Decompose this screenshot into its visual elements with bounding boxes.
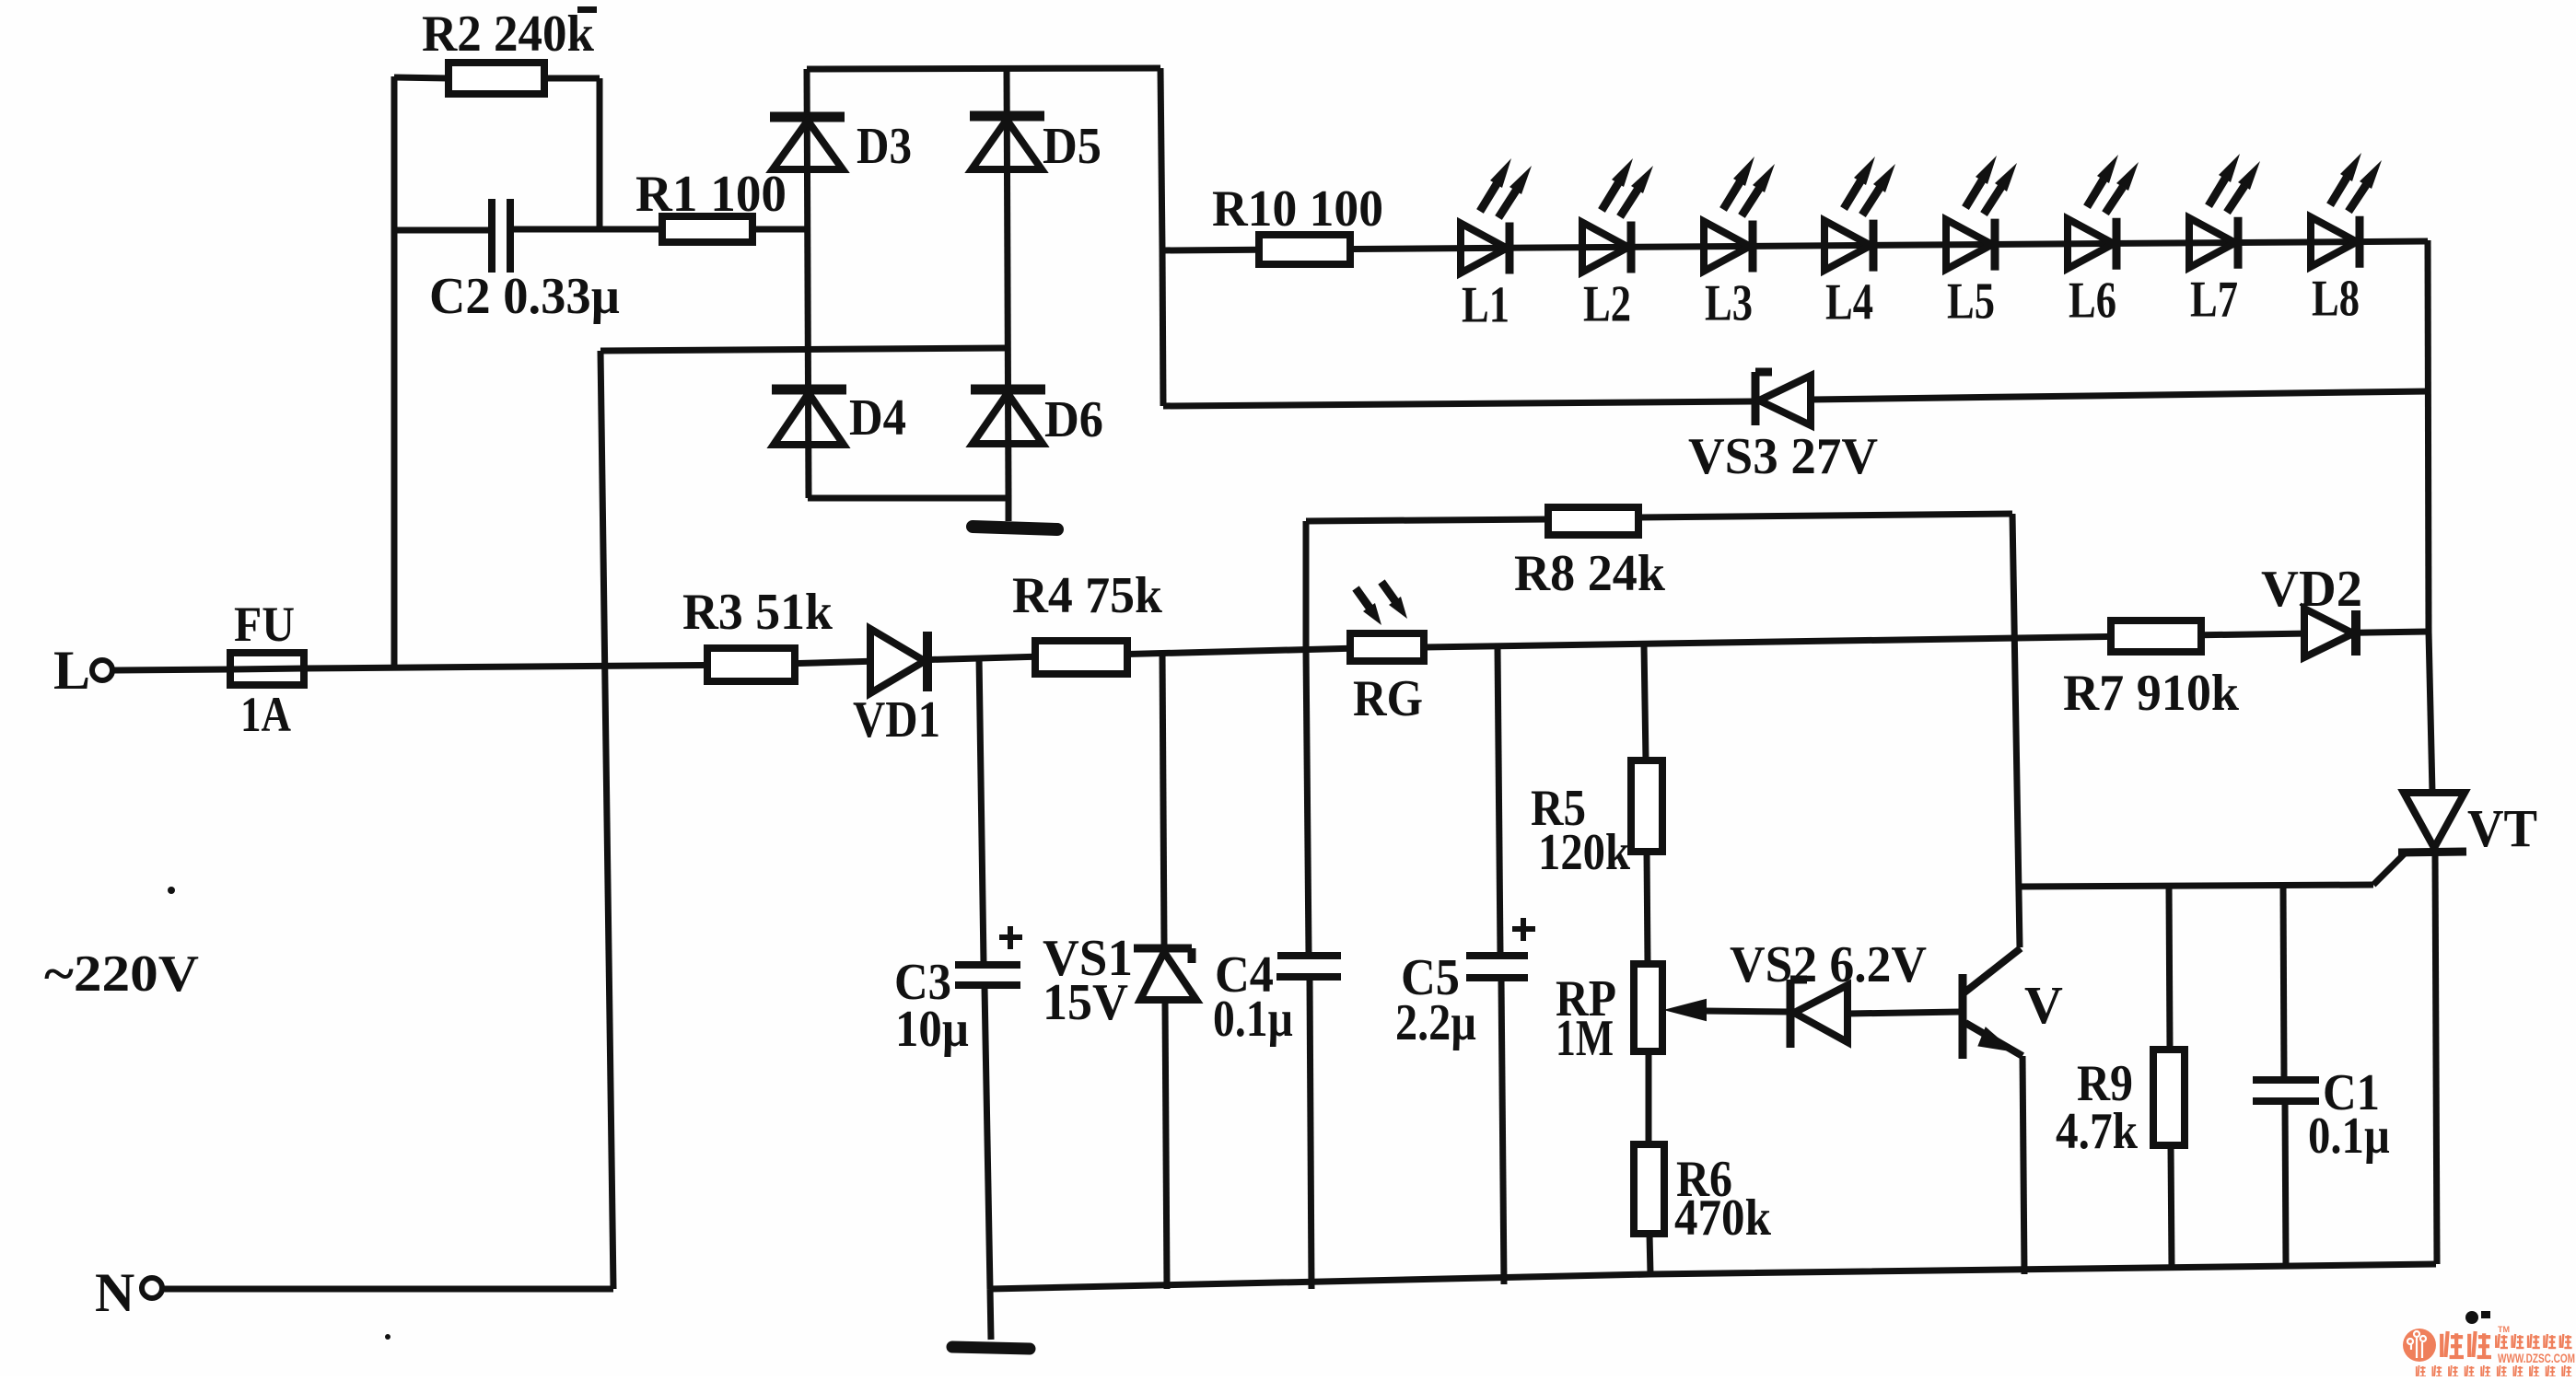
wire VS1 branch top [1162, 653, 1164, 945]
diode D3 [770, 112, 845, 122]
wire C4 branch bottom [1310, 979, 1311, 1289]
LED L3 [1704, 222, 1750, 272]
resistor R2 240k [449, 63, 544, 94]
svg-text:VD1: VD1 [853, 691, 940, 749]
wire LED feed drop [1162, 250, 1163, 406]
wire bottom rail [990, 1264, 2436, 1289]
wire R1 to bridge [752, 226, 807, 233]
wire N rail [162, 1286, 613, 1293]
LED L8 [2311, 217, 2357, 267]
resistor R7 910k [2111, 621, 2201, 652]
resistor R1 100 [662, 216, 752, 242]
zener VS1 15V [1134, 945, 1192, 953]
svg-text:WWW.DZSC.COM: WWW.DZSC.COM [2498, 1351, 2575, 1365]
svg-text:R7 910k: R7 910k [2063, 665, 2240, 722]
watermark weiku logo [2403, 1329, 2436, 1362]
capacitor C1 0.1u [2253, 1076, 2319, 1084]
LED L2 [1582, 223, 1628, 273]
svg-text:15V: 15V [1043, 974, 1128, 1031]
wire D6 to ground [1006, 498, 1012, 521]
wire C3 branch bottom [985, 987, 990, 1289]
wire L terminal to main rail [112, 669, 230, 670]
svg-text:VS2 6.2V: VS2 6.2V [1730, 936, 1927, 993]
wire C1 branch bottom [2285, 1103, 2286, 1265]
diode D5 [970, 111, 1044, 122]
svg-text:N: N [95, 1262, 134, 1323]
svg-text:~220V: ~220V [44, 946, 199, 1003]
diode D6 [971, 385, 1045, 395]
svg-text:VT: VT [2467, 798, 2537, 858]
capacitor C4 0.1u [1277, 952, 1341, 959]
transistor V collector [1964, 948, 2021, 992]
wire R2 right drop to C2 node [597, 78, 603, 229]
svg-text:1A: 1A [240, 687, 291, 742]
resistor R3 51k [707, 648, 795, 681]
wire R3 to VD1 [795, 661, 870, 663]
ground main [990, 1289, 991, 1340]
ground bridge [973, 527, 1057, 529]
wire C3 branch top [979, 656, 984, 963]
wire R7 to VD2 [2201, 633, 2304, 635]
LED L7 [2189, 218, 2235, 268]
svg-text:1M: 1M [1556, 1010, 1614, 1067]
transistor V base bar [1959, 974, 1967, 1059]
svg-text:VS3 27V: VS3 27V [1688, 428, 1878, 485]
resistor R10 100 [1259, 235, 1350, 264]
wire RG to R7 [1424, 636, 2111, 647]
wire R2 top left [394, 77, 449, 78]
capacitor C5 2.2u [1466, 952, 1528, 959]
svg-text:RG: RG [1353, 670, 1423, 727]
wire C5 branch bottom [1501, 980, 1504, 1284]
scan speck [577, 6, 597, 13]
svg-text:L2: L2 [1583, 276, 1631, 333]
svg-text:L5: L5 [1947, 273, 1995, 331]
scan speck [168, 887, 175, 894]
wire VS2 to base [1847, 1012, 1960, 1014]
potentiometer RP 1M [1634, 964, 1662, 1051]
svg-text:VD2: VD2 [2261, 561, 2362, 618]
svg-text:10µ: 10µ [895, 1001, 969, 1058]
wire C4 branch top [1306, 649, 1309, 954]
resistor R9 4.7k [2153, 1050, 2185, 1145]
svg-text:V: V [2024, 975, 2063, 1035]
LED L1 [1461, 224, 1507, 273]
resistor R4 75k [1035, 641, 1127, 674]
wire left leg of R2/C2 loop [391, 76, 398, 668]
LED L5 [1946, 220, 1992, 270]
scan speck [385, 1334, 390, 1340]
wire R9 branch top [2169, 886, 2170, 1050]
svg-text:L1: L1 [1462, 277, 1509, 334]
triac VT [2404, 793, 2465, 848]
svg-text:L7: L7 [2190, 272, 2238, 329]
wire RP to R6 [1646, 1051, 1652, 1144]
diode VD2 [2304, 609, 2353, 657]
wire VD2 to right vertical [2355, 632, 2428, 632]
capacitor C2 0.33u [488, 199, 495, 273]
svg-text:D3: D3 [857, 118, 912, 175]
wire R6 bottom [1649, 1234, 1650, 1274]
wire VT cathode down [2435, 853, 2437, 1264]
wire R8 branch up [1303, 521, 1310, 649]
wire bridge AC2 horizontal [600, 348, 1005, 351]
scan speck [2481, 1311, 2490, 1318]
svg-text:L3: L3 [1705, 275, 1753, 332]
LED L4 [1824, 221, 1871, 271]
zener VS3 27V [1752, 372, 1760, 425]
scan speck [2465, 1311, 2478, 1324]
wire VS1 branch bottom [1165, 1000, 1167, 1289]
wire C2 to R1 [510, 226, 662, 233]
wire bridge bottom [808, 495, 1008, 502]
svg-text:D5: D5 [1043, 118, 1102, 175]
svg-text:0.1µ: 0.1µ [2308, 1108, 2390, 1165]
wire C2 left [394, 227, 492, 234]
wire gate horizontal [2017, 885, 2373, 887]
wire R8 drop to collector node [2012, 514, 2020, 947]
wire bridge top rail [807, 68, 1160, 69]
fuse FU 1A [230, 653, 304, 685]
svg-text:D4: D4 [849, 389, 906, 447]
wire R8 left [1306, 519, 1548, 521]
wire C1 branch top [2283, 885, 2284, 1078]
terminal L [92, 660, 112, 680]
wire N vertical to bridge [600, 351, 613, 1289]
wire LED row [1162, 241, 2428, 250]
photoresistor RG [1350, 633, 1424, 661]
svg-text:4.7k: 4.7k [2056, 1103, 2139, 1160]
wire VD1 to R4 [924, 656, 1035, 659]
svg-text:R3 51k: R3 51k [682, 584, 833, 641]
diode VD1 [870, 629, 925, 693]
svg-text:L4: L4 [1825, 274, 1873, 331]
capacitor C3 10u [955, 961, 1020, 969]
transistor V emitter [1965, 1023, 2022, 1056]
zener VS2 6.2V [1787, 980, 1795, 1048]
terminal N [142, 1278, 162, 1298]
wire VS3 right [1811, 391, 2429, 400]
wire VT anode [2429, 632, 2432, 793]
wire bridge output down [1160, 68, 1162, 250]
svg-text:C2 0.33µ: C2 0.33µ [429, 268, 620, 325]
wire VS3 left [1163, 401, 1752, 406]
wire D3 D4 branch [807, 69, 809, 498]
svg-text:R8 24k: R8 24k [1514, 545, 1666, 602]
wire LED row right corner down [2428, 240, 2429, 632]
wire D5 D6 branch [1007, 68, 1008, 498]
svg-text:120k: 120k [1538, 824, 1631, 881]
wire gate slant to VT [2373, 853, 2406, 885]
wire R9 branch bottom [2171, 1145, 2172, 1268]
resistor R6 470k [1634, 1144, 1664, 1234]
svg-text:470k: 470k [1674, 1190, 1772, 1247]
resistor R8 24k [1548, 507, 1638, 535]
svg-text:R4 75k: R4 75k [1012, 567, 1163, 624]
resistor R5 120k [1631, 760, 1662, 852]
wire R5 to RP [1647, 852, 1648, 964]
svg-text:L6: L6 [2069, 273, 2116, 330]
svg-text:R2 240k: R2 240k [422, 6, 595, 63]
svg-text:TM: TM [2498, 1325, 2510, 1334]
svg-text:2.2µ: 2.2µ [1395, 994, 1476, 1051]
wire R8 right [1638, 514, 2012, 517]
LED L6 [2068, 219, 2114, 269]
svg-text:0.1µ: 0.1µ [1213, 991, 1293, 1048]
diode D4 [772, 385, 846, 395]
wire R5 branch top [1644, 644, 1646, 760]
wire C5 branch top [1498, 647, 1500, 954]
svg-text:L: L [53, 640, 90, 701]
svg-text:R10 100: R10 100 [1212, 180, 1383, 238]
svg-text:FU: FU [234, 597, 295, 652]
svg-text:R1 100: R1 100 [635, 166, 787, 223]
wire FU to R3 [304, 665, 707, 668]
wire emitter down [2022, 1056, 2024, 1274]
wire R2 top right [544, 75, 600, 82]
wire R4 to RG [1127, 648, 1350, 654]
svg-text:D6: D6 [1044, 391, 1103, 448]
svg-text:L8: L8 [2312, 271, 2360, 328]
